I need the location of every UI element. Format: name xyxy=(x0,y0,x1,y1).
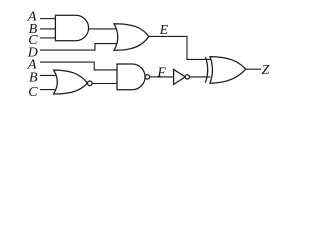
svg-text:F: F xyxy=(156,65,166,80)
svg-text:B: B xyxy=(29,70,38,85)
svg-text:C: C xyxy=(28,85,38,100)
svg-text:E: E xyxy=(159,23,169,38)
svg-text:Z: Z xyxy=(262,63,270,78)
